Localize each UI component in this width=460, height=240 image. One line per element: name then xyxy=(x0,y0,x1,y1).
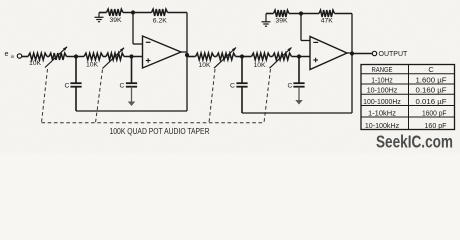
svg-text:100K QUAD POT AUDIO TAPER: 100K QUAD POT AUDIO TAPER xyxy=(110,127,210,136)
svg-text:0.016 µF: 0.016 µF xyxy=(416,97,448,106)
svg-text:10K: 10K xyxy=(198,62,211,69)
svg-text:10K: 10K xyxy=(86,62,99,69)
svg-text:1-10kHz: 1-10kHz xyxy=(368,108,396,117)
svg-text:in: in xyxy=(11,54,15,60)
svg-text:10-100kHz: 10-100kHz xyxy=(365,121,400,130)
svg-text:C: C xyxy=(428,65,434,74)
svg-text:39K: 39K xyxy=(275,17,288,24)
svg-text:RANGE: RANGE xyxy=(372,65,393,74)
svg-text:100-1000Hz: 100-1000Hz xyxy=(363,97,401,106)
svg-text:10-100Hz: 10-100Hz xyxy=(367,86,398,95)
svg-text:39K: 39K xyxy=(109,17,122,24)
svg-text:160 pF: 160 pF xyxy=(425,121,447,130)
svg-text:C: C xyxy=(288,83,293,90)
svg-text:47K: 47K xyxy=(321,17,334,24)
svg-text:1600 pF: 1600 pF xyxy=(422,108,447,117)
svg-text:6.2K: 6.2K xyxy=(153,17,167,24)
svg-text:1.600 µF: 1.600 µF xyxy=(416,75,448,84)
svg-text:1-10Hz: 1-10Hz xyxy=(371,75,393,84)
svg-text:OUTPUT: OUTPUT xyxy=(379,51,409,58)
svg-text:SeekIC.com: SeekIC.com xyxy=(376,131,453,151)
svg-text:e: e xyxy=(5,49,9,58)
svg-text:10K: 10K xyxy=(29,60,42,67)
svg-text:0.160 µF: 0.160 µF xyxy=(416,86,448,95)
svg-text:10K: 10K xyxy=(253,62,266,69)
svg-text:C: C xyxy=(230,83,235,90)
svg-text:C: C xyxy=(65,83,70,90)
svg-text:C: C xyxy=(120,83,125,90)
